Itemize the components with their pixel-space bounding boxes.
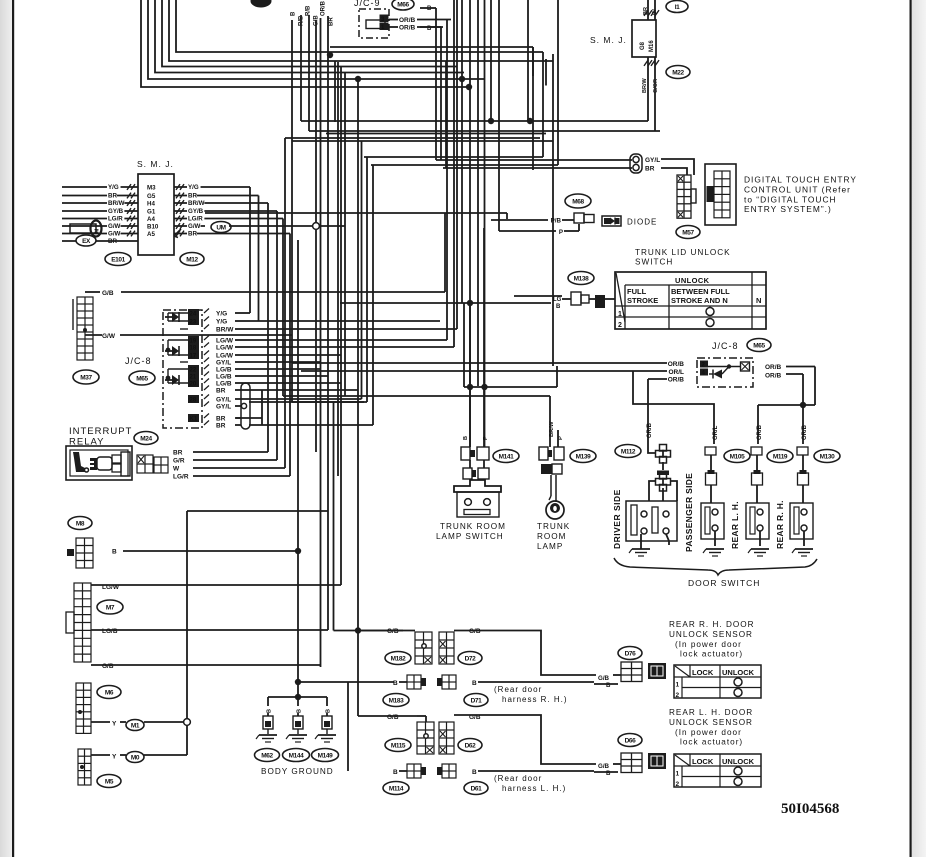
svg-text:23: 23	[190, 320, 197, 326]
svg-text:(Rear door: (Rear door	[494, 774, 542, 783]
svg-text:lock actuator): lock actuator)	[680, 650, 743, 659]
svg-text:G1: G1	[147, 209, 156, 216]
svg-text:P/B: P/B	[551, 218, 562, 225]
svg-text:UNLOCK: UNLOCK	[722, 668, 755, 677]
svg-text:REAR R. H.: REAR R. H.	[775, 500, 785, 549]
svg-text:M16: M16	[649, 40, 655, 52]
svg-text:OR/B: OR/B	[321, 0, 327, 16]
svg-text:DIGITAL TOUCH ENTRY: DIGITAL TOUCH ENTRY	[744, 175, 857, 185]
svg-text:BR: BR	[329, 17, 335, 26]
svg-text:M7: M7	[106, 604, 115, 611]
svg-text:OR/B: OR/B	[399, 25, 416, 32]
svg-text:G/W: G/W	[108, 223, 121, 230]
svg-text:BR/W: BR/W	[216, 326, 234, 333]
svg-text:Y/G: Y/G	[216, 310, 227, 317]
svg-text:LG/R: LG/R	[108, 216, 123, 223]
svg-text:M144: M144	[289, 752, 304, 759]
svg-text:SWITCH: SWITCH	[635, 258, 673, 267]
svg-text:S. M. J.: S. M. J.	[137, 159, 174, 169]
svg-text:M6: M6	[105, 689, 114, 696]
svg-text:M1: M1	[131, 722, 140, 729]
svg-text:LG/B: LG/B	[102, 628, 118, 635]
svg-text:Y/G: Y/G	[188, 184, 199, 191]
svg-text:(Rear door: (Rear door	[494, 685, 542, 694]
svg-text:D62: D62	[465, 742, 477, 749]
svg-text:OR/B: OR/B	[757, 424, 763, 440]
svg-text:W: W	[173, 465, 180, 472]
svg-text:M8: M8	[76, 520, 85, 527]
svg-text:M12: M12	[186, 256, 198, 263]
svg-text:DIODE: DIODE	[627, 218, 657, 227]
svg-text:EX: EX	[82, 238, 91, 245]
svg-text:BR: BR	[108, 193, 117, 200]
svg-text:OR/L: OR/L	[668, 369, 684, 376]
svg-text:STROKE: STROKE	[627, 296, 658, 305]
svg-text:17: 17	[190, 354, 197, 360]
svg-text:TRUNK ROOM: TRUNK ROOM	[440, 522, 506, 531]
svg-text:GY/L: GY/L	[216, 403, 231, 410]
svg-text:M65: M65	[753, 342, 765, 349]
svg-text:M0: M0	[131, 754, 140, 761]
svg-text:LG/W: LG/W	[216, 352, 234, 359]
svg-text:BR: BR	[216, 415, 226, 422]
svg-text:BR/W: BR/W	[188, 200, 205, 207]
svg-text:2: 2	[618, 322, 622, 329]
svg-text:B: B	[393, 680, 398, 687]
svg-text:Y/G: Y/G	[216, 318, 227, 325]
svg-text:R/B: R/B	[306, 5, 312, 16]
svg-text:B: B	[112, 549, 117, 556]
svg-text:M68: M68	[572, 198, 584, 205]
svg-text:CONTROL UNIT (Refer: CONTROL UNIT (Refer	[744, 185, 851, 195]
svg-text:UNLOCK: UNLOCK	[722, 757, 755, 766]
svg-text:M182: M182	[391, 655, 406, 662]
svg-text:G/W: G/W	[108, 231, 121, 238]
svg-text:BR: BR	[188, 193, 197, 200]
svg-text:G/B: G/B	[387, 628, 399, 635]
svg-text:M149: M149	[318, 752, 333, 759]
svg-text:G/OR: G/OR	[653, 79, 659, 93]
svg-text:J/C-9: J/C-9	[354, 0, 381, 8]
svg-text:LG/B: LG/B	[216, 373, 232, 380]
svg-text:K1: K1	[190, 417, 198, 423]
svg-text:P: P	[558, 436, 564, 440]
svg-text:GY/L: GY/L	[216, 359, 231, 366]
svg-text:BR: BR	[216, 422, 226, 429]
svg-text:BR: BR	[188, 231, 197, 238]
svg-text:BR/W: BR/W	[108, 200, 125, 207]
svg-text:H4: H4	[147, 201, 155, 208]
svg-text:BR: BR	[216, 387, 226, 394]
svg-text:B: B	[606, 770, 611, 777]
svg-text:I1: I1	[675, 4, 680, 11]
svg-text:UNLOCK SENSOR: UNLOCK SENSOR	[669, 630, 753, 639]
svg-text:M183: M183	[389, 697, 404, 704]
svg-text:harness L. H.): harness L. H.)	[502, 784, 566, 793]
svg-text:DRIVER SIDE: DRIVER SIDE	[612, 489, 622, 549]
svg-text:Y: Y	[112, 721, 117, 728]
svg-text:A5: A5	[147, 231, 155, 238]
svg-text:M37: M37	[80, 374, 92, 381]
svg-text:BR: BR	[173, 449, 183, 456]
svg-text:LG: LG	[553, 297, 562, 303]
svg-text:B: B	[472, 680, 477, 687]
svg-text:OR/B: OR/B	[647, 422, 653, 438]
svg-text:N: N	[756, 296, 761, 305]
svg-text:G/B: G/B	[598, 675, 610, 682]
svg-text:B: B	[297, 709, 303, 713]
svg-text:20: 20	[190, 382, 197, 388]
svg-text:DOOR SWITCH: DOOR SWITCH	[688, 578, 760, 588]
svg-text:GY/B: GY/B	[188, 208, 204, 215]
svg-text:D61: D61	[471, 785, 483, 792]
svg-text:1: 1	[676, 771, 680, 778]
svg-text:PASSENGER SIDE: PASSENGER SIDE	[684, 473, 694, 552]
svg-text:Y/G: Y/G	[108, 184, 119, 191]
svg-text:OR/B: OR/B	[802, 424, 808, 440]
svg-text:G8: G8	[640, 41, 646, 50]
svg-text:FULL: FULL	[627, 287, 647, 296]
svg-text:G/B: G/B	[469, 628, 481, 635]
svg-text:(In power door: (In power door	[675, 640, 742, 649]
svg-text:E101: E101	[111, 256, 125, 263]
svg-text:OR/L: OR/L	[713, 425, 719, 440]
svg-text:GY/B: GY/B	[108, 208, 124, 215]
svg-text:GY/L: GY/L	[216, 396, 231, 403]
svg-text:M112: M112	[621, 448, 636, 455]
svg-text:LOCK: LOCK	[692, 668, 714, 677]
svg-text:M65: M65	[136, 375, 148, 382]
svg-text:1: 1	[676, 682, 680, 689]
svg-text:B: B	[472, 769, 477, 776]
svg-text:BODY GROUND: BODY GROUND	[261, 767, 334, 776]
svg-text:M141: M141	[499, 453, 514, 460]
svg-text:B: B	[393, 769, 398, 776]
svg-text:OR/B: OR/B	[668, 377, 685, 384]
svg-text:B: B	[427, 6, 432, 12]
svg-text:B: B	[556, 304, 561, 310]
svg-text:(In power door: (In power door	[675, 728, 742, 737]
svg-text:B: B	[326, 709, 332, 713]
svg-text:G/R: G/R	[173, 457, 185, 464]
svg-text:D66: D66	[625, 737, 637, 744]
svg-text:M5: M5	[105, 778, 114, 785]
svg-text:REAR L. H.: REAR L. H.	[730, 501, 740, 549]
svg-text:OR/B: OR/B	[765, 373, 782, 380]
svg-text:M115: M115	[391, 742, 406, 749]
svg-text:M119: M119	[773, 453, 788, 460]
svg-text:G/W: G/W	[102, 333, 116, 340]
svg-text:LOCK: LOCK	[692, 757, 714, 766]
svg-text:G/B: G/B	[598, 763, 610, 770]
svg-text:LG/B: LG/B	[216, 380, 232, 387]
svg-text:ROOM: ROOM	[537, 532, 566, 541]
svg-text:Y: Y	[112, 754, 117, 761]
svg-text:G/B: G/B	[102, 663, 114, 670]
svg-text:D71: D71	[471, 697, 483, 704]
svg-text:P: P	[483, 436, 489, 440]
svg-text:INTERRUPT: INTERRUPT	[69, 426, 132, 437]
svg-text:TRUNK: TRUNK	[537, 522, 570, 531]
svg-text:OR/B: OR/B	[765, 364, 782, 371]
svg-text:UNLOCK: UNLOCK	[675, 276, 710, 285]
svg-text:BETWEEN FULL: BETWEEN FULL	[671, 287, 730, 296]
svg-text:M66: M66	[397, 1, 409, 8]
svg-text:G/B: G/B	[102, 290, 114, 297]
svg-text:B: B	[463, 436, 469, 440]
svg-text:D76: D76	[625, 650, 637, 657]
svg-text:UM: UM	[216, 224, 225, 231]
svg-text:M3: M3	[147, 185, 156, 192]
svg-text:M62: M62	[261, 752, 273, 759]
svg-text:REAR L. H. DOOR: REAR L. H. DOOR	[669, 708, 753, 717]
svg-text:M24: M24	[140, 435, 152, 442]
svg-text:LG/W: LG/W	[216, 337, 234, 344]
svg-text:B10: B10	[147, 224, 159, 231]
svg-text:ENTRY SYSTEM”.): ENTRY SYSTEM”.)	[744, 204, 832, 214]
svg-text:harness R. H.): harness R. H.)	[502, 695, 568, 704]
svg-text:UNLOCK SENSOR: UNLOCK SENSOR	[669, 718, 753, 727]
svg-text:B: B	[606, 682, 611, 689]
svg-text:G/B: G/B	[387, 714, 399, 721]
svg-text:28: 28	[190, 398, 197, 404]
svg-text:18: 18	[190, 346, 197, 352]
svg-text:STROKE AND N: STROKE AND N	[671, 296, 728, 305]
svg-text:B: B	[267, 709, 273, 713]
svg-text:50I04568: 50I04568	[781, 801, 839, 817]
svg-text:1: 1	[618, 311, 622, 318]
svg-text:G5: G5	[147, 193, 156, 200]
svg-text:REAR R. H. DOOR: REAR R. H. DOOR	[669, 620, 755, 629]
svg-text:M130: M130	[820, 453, 835, 460]
svg-text:LG/R: LG/R	[188, 216, 203, 223]
svg-text:M: M	[95, 229, 101, 233]
svg-text:M138: M138	[574, 275, 589, 282]
svg-text:J/C-8: J/C-8	[712, 341, 739, 351]
svg-text:LAMP SWITCH: LAMP SWITCH	[436, 532, 504, 541]
svg-text:to “DIGITAL TOUCH: to “DIGITAL TOUCH	[744, 195, 837, 205]
svg-text:D72: D72	[465, 655, 477, 662]
svg-text:M105: M105	[730, 453, 745, 460]
svg-text:2: 2	[676, 781, 680, 788]
svg-text:GY/L: GY/L	[645, 157, 660, 164]
svg-text:LG/R: LG/R	[173, 473, 189, 480]
svg-text:lock actuator): lock actuator)	[680, 738, 743, 747]
svg-text:S. M. J.: S. M. J.	[590, 35, 627, 45]
svg-text:LG/B: LG/B	[216, 366, 232, 373]
svg-text:M22: M22	[672, 69, 684, 76]
svg-text:M139: M139	[576, 453, 591, 460]
svg-text:J/C-8: J/C-8	[125, 356, 152, 366]
svg-text:LAMP: LAMP	[537, 542, 563, 551]
svg-text:TRUNK LID UNLOCK: TRUNK LID UNLOCK	[635, 248, 731, 257]
svg-text:2: 2	[676, 692, 680, 699]
svg-text:B: B	[291, 11, 297, 16]
svg-text:OR/B: OR/B	[399, 17, 416, 24]
svg-text:24: 24	[190, 312, 197, 318]
svg-text:BR: BR	[645, 166, 655, 173]
svg-text:G/W: G/W	[188, 223, 201, 230]
svg-text:LG/W: LG/W	[216, 344, 234, 351]
svg-text:A4: A4	[147, 216, 155, 223]
svg-text:P: P	[559, 229, 563, 236]
svg-text:M114: M114	[389, 785, 404, 792]
svg-text:OR/B: OR/B	[668, 361, 685, 368]
svg-text:M57: M57	[682, 229, 694, 236]
